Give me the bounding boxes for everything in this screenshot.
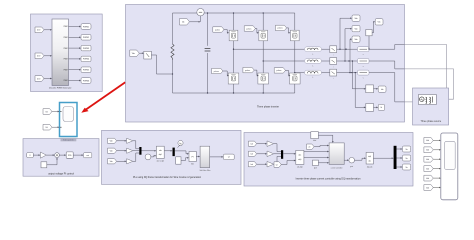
svg-text:Vab: Vab bbox=[354, 39, 357, 41]
svg-text:PWM6: PWM6 bbox=[83, 80, 90, 82]
svg-text:Inverter three phase current c: Inverter three phase current controller … bbox=[296, 178, 362, 181]
svg-text:Iab: Iab bbox=[250, 143, 252, 145]
svg-text:gain: gain bbox=[350, 166, 353, 168]
svg-text:out: out bbox=[86, 154, 89, 157]
svg-text:abc: abc bbox=[368, 161, 371, 163]
svg-text:Sa: Sa bbox=[405, 158, 407, 160]
svg-text:Vab: Vab bbox=[110, 150, 113, 152]
svg-text:pulses: pulses bbox=[245, 70, 250, 72]
svg-text:Vdc: Vdc bbox=[132, 53, 135, 55]
svg-text:output voltage PI control: output voltage PI control bbox=[48, 173, 74, 176]
svg-text:Vab: Vab bbox=[110, 141, 113, 143]
svg-text:Vab: Vab bbox=[426, 178, 429, 180]
svg-text:PWM3: PWM3 bbox=[83, 48, 90, 50]
svg-text:abc: abc bbox=[298, 154, 301, 156]
svg-text:Iab: Iab bbox=[250, 154, 252, 156]
svg-text:dq0: dq0 bbox=[159, 154, 162, 156]
svg-text:PID: PID bbox=[68, 155, 72, 157]
svg-text:L: L bbox=[313, 77, 314, 79]
svg-text:Vab: Vab bbox=[110, 161, 113, 163]
svg-text:PWM4: PWM4 bbox=[83, 59, 90, 61]
svg-text:Vdc: Vdc bbox=[378, 22, 381, 24]
svg-text:L: L bbox=[313, 66, 314, 68]
svg-text:dq0: dq0 bbox=[368, 156, 371, 158]
svg-text:PWM: PWM bbox=[64, 26, 69, 28]
svg-text:Vd: Vd bbox=[45, 127, 47, 129]
svg-text:PWM2: PWM2 bbox=[83, 37, 90, 39]
svg-text:abc-dq0: abc-dq0 bbox=[297, 166, 303, 168]
svg-text:Iab: Iab bbox=[381, 89, 384, 91]
svg-text:Sa: Sa bbox=[405, 149, 407, 151]
svg-text:Uref: Uref bbox=[37, 30, 41, 32]
svg-text:PWM: PWM bbox=[64, 69, 69, 71]
svg-text:Vab: Vab bbox=[426, 168, 429, 170]
svg-text:abc: abc bbox=[159, 150, 162, 152]
svg-text:PWM: PWM bbox=[64, 37, 69, 39]
svg-text:PWM1: PWM1 bbox=[83, 26, 90, 28]
svg-text:PWM5: PWM5 bbox=[83, 70, 90, 72]
svg-text:PWM: PWM bbox=[64, 80, 69, 82]
svg-text:Vab: Vab bbox=[426, 159, 429, 161]
svg-text:dq0: dq0 bbox=[298, 159, 301, 161]
svg-text:Sa: Sa bbox=[405, 167, 407, 169]
svg-text:pulses: pulses bbox=[214, 71, 219, 73]
svg-text:PWM: PWM bbox=[64, 48, 69, 50]
svg-text:Idc: Idc bbox=[182, 22, 185, 24]
svg-text:Three phase inverter: Three phase inverter bbox=[257, 106, 279, 109]
svg-text:Vab: Vab bbox=[354, 18, 357, 20]
svg-text:pulses: pulses bbox=[215, 29, 220, 31]
svg-text:L: L bbox=[313, 54, 314, 56]
svg-text:dq0-abc: dq0-abc bbox=[367, 166, 373, 168]
svg-text:Ib: Ib bbox=[381, 107, 383, 109]
svg-text:Three phase source: Three phase source bbox=[420, 120, 441, 123]
svg-text:Discrete PWM Generator: Discrete PWM Generator bbox=[49, 87, 72, 90]
svg-text:Uref: Uref bbox=[37, 56, 41, 58]
svg-text:Vab: Vab bbox=[426, 187, 429, 189]
svg-text:Iab: Iab bbox=[250, 164, 252, 166]
svg-text:PWM: PWM bbox=[64, 59, 69, 61]
svg-text:Vab: Vab bbox=[426, 140, 429, 142]
svg-text:Vab: Vab bbox=[354, 28, 357, 30]
svg-text:pulses: pulses bbox=[278, 28, 283, 30]
svg-text:Subsystem: Subsystem bbox=[63, 139, 74, 142]
svg-text:Vd: Vd bbox=[45, 111, 47, 113]
svg-text:pulses: pulses bbox=[276, 70, 281, 72]
svg-text:PLL using DQ frame transformat: PLL using DQ frame transformation for Si… bbox=[133, 176, 202, 179]
svg-text:Vab: Vab bbox=[426, 150, 429, 152]
svg-text:pulses: pulses bbox=[246, 28, 251, 30]
svg-text:Uref: Uref bbox=[37, 78, 41, 80]
